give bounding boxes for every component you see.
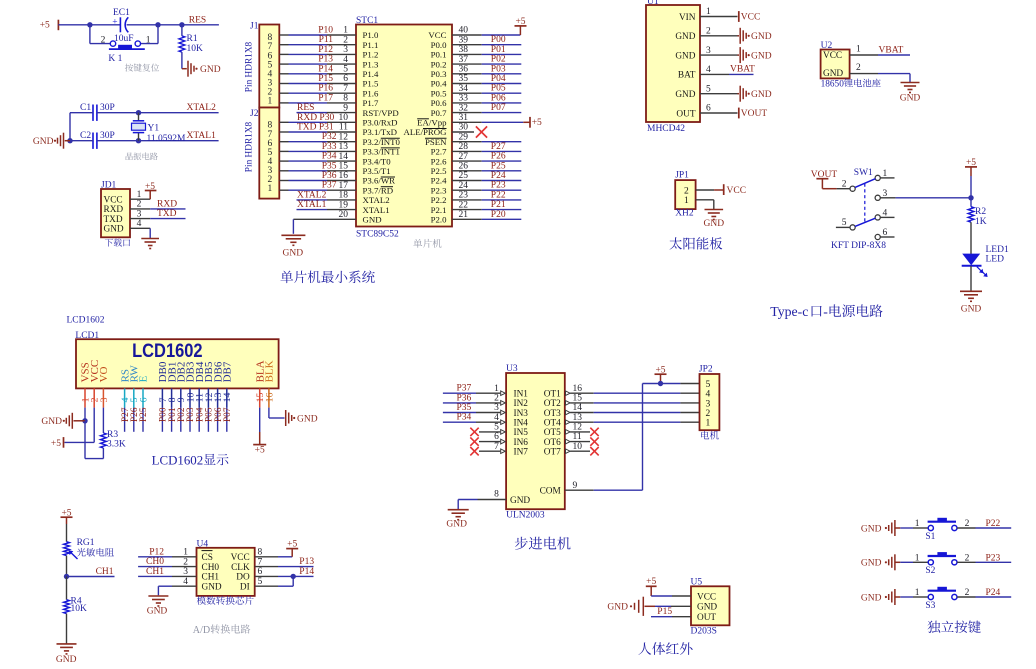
svg-text:E: E — [138, 375, 150, 382]
svg-text:+5: +5 — [515, 17, 525, 27]
svg-text:XTAL1: XTAL1 — [363, 205, 390, 215]
svg-text:13: 13 — [339, 142, 349, 152]
svg-text:9: 9 — [573, 481, 578, 491]
svg-text:3: 3 — [99, 397, 110, 402]
svg-text:40: 40 — [459, 26, 469, 36]
svg-text:4: 4 — [494, 413, 499, 423]
svg-text:P2.7: P2.7 — [431, 147, 447, 157]
svg-text:P14: P14 — [299, 567, 314, 577]
svg-text:XTAL2: XTAL2 — [187, 103, 217, 113]
svg-text:OT6: OT6 — [544, 438, 561, 448]
svg-text:CH1: CH1 — [96, 567, 114, 577]
svg-text:LED: LED — [986, 255, 1005, 265]
svg-text:P14: P14 — [318, 64, 333, 74]
svg-text:RXD: RXD — [157, 199, 177, 209]
svg-text:LCD1602: LCD1602 — [132, 341, 203, 362]
svg-text:IN4: IN4 — [514, 419, 529, 429]
svg-text:RES: RES — [297, 103, 314, 113]
svg-text:RXD P30: RXD P30 — [297, 113, 334, 123]
svg-text:1: 1 — [915, 553, 920, 563]
svg-text:P1.0: P1.0 — [363, 30, 379, 40]
svg-text:P23: P23 — [986, 553, 1001, 563]
svg-text:SW1: SW1 — [854, 168, 873, 178]
svg-text:P0.5: P0.5 — [431, 88, 447, 98]
svg-text:2: 2 — [183, 557, 188, 567]
svg-text:P1.2: P1.2 — [363, 50, 379, 60]
svg-text:P32: P32 — [322, 132, 337, 142]
svg-text:30: 30 — [459, 123, 469, 133]
svg-text:P17: P17 — [318, 93, 333, 103]
svg-text:Type-c: Type-c — [770, 304, 808, 319]
svg-text:CH0: CH0 — [146, 557, 164, 567]
svg-text:5: 5 — [343, 65, 348, 75]
svg-text:GND: GND — [363, 215, 382, 225]
svg-text:P0.0: P0.0 — [431, 40, 447, 50]
svg-text:18: 18 — [339, 191, 349, 201]
svg-text:2: 2 — [706, 27, 711, 37]
svg-text:P24: P24 — [491, 171, 506, 181]
svg-text:VCC: VCC — [104, 196, 123, 206]
svg-text:GND: GND — [675, 90, 695, 100]
svg-text:P04: P04 — [491, 74, 506, 84]
svg-text:GND: GND — [861, 524, 882, 534]
svg-text:BLK: BLK — [264, 360, 276, 382]
svg-text:CH1: CH1 — [146, 567, 164, 577]
svg-text:31: 31 — [459, 113, 469, 123]
svg-text:17: 17 — [339, 181, 349, 191]
svg-text:VCC: VCC — [428, 30, 446, 40]
svg-text:27: 27 — [459, 152, 469, 162]
svg-text:OUT: OUT — [697, 613, 716, 623]
svg-text:GND: GND — [751, 90, 772, 100]
svg-text:1: 1 — [915, 588, 920, 598]
svg-text:19: 19 — [339, 200, 349, 210]
svg-text:-: - — [823, 304, 828, 319]
svg-text:IN6: IN6 — [514, 438, 529, 448]
svg-text:3.3K: 3.3K — [107, 439, 126, 449]
svg-text:P02: P02 — [491, 55, 506, 65]
svg-text:3: 3 — [706, 399, 711, 409]
svg-text:P12: P12 — [318, 45, 333, 55]
svg-text:7: 7 — [494, 442, 499, 452]
svg-text:P27: P27 — [491, 142, 506, 152]
svg-text:14: 14 — [573, 403, 583, 413]
svg-text:P1.4: P1.4 — [363, 69, 379, 79]
svg-text:1: 1 — [856, 45, 861, 55]
svg-text:12: 12 — [573, 423, 583, 433]
svg-text:30P: 30P — [100, 103, 115, 113]
svg-text:8: 8 — [258, 548, 263, 558]
svg-text:15: 15 — [339, 162, 349, 172]
svg-text:S1: S1 — [925, 532, 935, 542]
svg-text:10: 10 — [573, 442, 583, 452]
svg-text:16: 16 — [573, 384, 583, 394]
svg-text:RXD: RXD — [104, 205, 124, 215]
svg-text:P15: P15 — [657, 607, 672, 617]
svg-text:+5: +5 — [966, 158, 976, 168]
svg-text:25: 25 — [459, 171, 469, 181]
svg-text:6: 6 — [258, 567, 263, 577]
svg-text:P1.1: P1.1 — [363, 40, 379, 50]
svg-text:1: 1 — [343, 26, 348, 36]
svg-text:3: 3 — [343, 45, 348, 55]
svg-text:OT5: OT5 — [544, 428, 561, 438]
svg-text:TXD: TXD — [104, 215, 123, 225]
svg-text:DI: DI — [240, 583, 250, 593]
svg-text:IN3: IN3 — [514, 409, 529, 419]
svg-text:P21: P21 — [491, 200, 506, 210]
svg-text:P2.3: P2.3 — [431, 185, 447, 195]
svg-text:28: 28 — [459, 142, 469, 152]
svg-text:RES: RES — [189, 15, 206, 25]
svg-text:P15: P15 — [318, 74, 333, 84]
svg-text:P1.3: P1.3 — [363, 59, 379, 69]
svg-text:29: 29 — [459, 132, 469, 142]
svg-text:K 1: K 1 — [108, 54, 122, 64]
svg-text:CS: CS — [202, 553, 213, 563]
svg-text:2: 2 — [494, 394, 499, 404]
svg-text:16: 16 — [339, 171, 349, 181]
svg-text:VCC: VCC — [231, 553, 250, 563]
svg-text:C1: C1 — [80, 103, 91, 113]
svg-text:+5: +5 — [532, 118, 542, 128]
svg-text:+5: +5 — [40, 21, 50, 31]
svg-text:11: 11 — [573, 432, 582, 442]
svg-text:P3.0/RxD: P3.0/RxD — [363, 118, 398, 128]
svg-text:C2: C2 — [80, 131, 91, 141]
svg-text:P13: P13 — [299, 557, 314, 567]
svg-text:14: 14 — [222, 393, 233, 403]
svg-text:7: 7 — [343, 84, 348, 94]
svg-text:CH0: CH0 — [202, 563, 220, 573]
svg-text:P2.0: P2.0 — [431, 215, 447, 225]
svg-text:GND: GND — [202, 583, 222, 593]
svg-text:P37: P37 — [322, 181, 337, 191]
svg-text:GND: GND — [297, 414, 318, 424]
svg-text:GND: GND — [33, 137, 54, 147]
svg-text:GND: GND — [200, 65, 221, 75]
svg-text:1: 1 — [137, 190, 142, 200]
svg-text:P12: P12 — [149, 547, 164, 557]
svg-text:1: 1 — [494, 384, 499, 394]
svg-text:34: 34 — [459, 84, 469, 94]
svg-text:XTAL1: XTAL1 — [297, 200, 327, 210]
svg-text:TXD: TXD — [157, 209, 177, 219]
svg-text:GND: GND — [675, 32, 695, 42]
svg-text:Y1: Y1 — [148, 123, 160, 133]
svg-text:D203S: D203S — [691, 627, 717, 637]
svg-text:5: 5 — [706, 84, 711, 94]
svg-text:P0.3: P0.3 — [431, 69, 447, 79]
svg-text:OT1: OT1 — [544, 390, 561, 400]
svg-text:GND: GND — [861, 593, 882, 603]
svg-text:4: 4 — [137, 219, 142, 229]
svg-text:IN5: IN5 — [514, 428, 529, 438]
svg-text:P1.5: P1.5 — [363, 79, 379, 89]
svg-text:XTAL2: XTAL2 — [297, 190, 327, 200]
svg-text:EC1: EC1 — [113, 8, 130, 18]
svg-text:2: 2 — [343, 35, 348, 45]
svg-text:TXD P31: TXD P31 — [297, 123, 334, 133]
svg-text:1K: 1K — [975, 217, 987, 227]
svg-text:STC1: STC1 — [356, 16, 378, 26]
svg-text:P2.4: P2.4 — [431, 176, 447, 186]
svg-text:10K: 10K — [187, 44, 204, 54]
svg-text:P25: P25 — [491, 161, 506, 171]
svg-text:P0.4: P0.4 — [431, 79, 447, 89]
svg-text:2: 2 — [856, 63, 861, 73]
svg-text:9: 9 — [343, 103, 348, 113]
svg-text:P05: P05 — [491, 84, 506, 94]
svg-text:GND: GND — [704, 219, 725, 229]
svg-text:5: 5 — [706, 380, 711, 390]
svg-text:P2.2: P2.2 — [431, 195, 447, 205]
svg-text:2: 2 — [706, 409, 711, 419]
svg-text:BAT: BAT — [678, 71, 696, 81]
svg-text:R2: R2 — [975, 207, 986, 217]
svg-text:3: 3 — [706, 46, 711, 56]
svg-text:P34: P34 — [457, 413, 472, 423]
svg-text:13: 13 — [573, 413, 583, 423]
svg-text:STC89C52: STC89C52 — [356, 230, 399, 240]
svg-text:GND: GND — [861, 559, 882, 569]
svg-text:P3.1/TxD: P3.1/TxD — [363, 127, 397, 137]
svg-text:P33: P33 — [322, 142, 337, 152]
svg-text:MHCD42: MHCD42 — [647, 124, 685, 134]
svg-text:11: 11 — [339, 123, 348, 133]
svg-text:P34: P34 — [322, 152, 337, 162]
svg-text:S2: S2 — [925, 566, 935, 576]
svg-text:1: 1 — [915, 519, 920, 529]
svg-text:IN7: IN7 — [514, 448, 529, 458]
svg-text:12: 12 — [339, 132, 349, 142]
svg-text:+5: +5 — [255, 446, 265, 456]
svg-text:S3: S3 — [925, 601, 935, 611]
svg-text:38: 38 — [459, 45, 469, 55]
svg-text:GND: GND — [41, 417, 62, 427]
svg-text:P10: P10 — [318, 26, 333, 36]
svg-text:VCC: VCC — [697, 592, 716, 602]
svg-text:1: 1 — [684, 196, 689, 206]
svg-text:4: 4 — [706, 65, 711, 75]
svg-text:GND: GND — [56, 655, 77, 665]
svg-text:3: 3 — [183, 567, 188, 577]
svg-text:2: 2 — [842, 179, 847, 189]
svg-text:32: 32 — [459, 103, 469, 113]
svg-text:GND: GND — [510, 496, 530, 506]
svg-text:VO: VO — [98, 366, 110, 382]
svg-text:21: 21 — [459, 210, 469, 220]
svg-text:P0.7: P0.7 — [431, 108, 447, 118]
svg-text:LCD1602: LCD1602 — [152, 453, 204, 467]
svg-text:6: 6 — [494, 432, 499, 442]
svg-text:37: 37 — [459, 55, 469, 65]
svg-text:P0.1: P0.1 — [431, 50, 447, 60]
svg-text:VCC: VCC — [727, 186, 747, 196]
svg-text:P22: P22 — [986, 519, 1001, 529]
svg-text:5: 5 — [494, 423, 499, 433]
svg-text:P35: P35 — [457, 403, 472, 413]
svg-text:1: 1 — [268, 97, 273, 107]
svg-text:P1.6: P1.6 — [363, 88, 379, 98]
svg-text:GND: GND — [751, 51, 772, 61]
svg-text:LCD1602: LCD1602 — [67, 316, 105, 326]
svg-text:2: 2 — [684, 186, 689, 196]
svg-text:P13: P13 — [318, 55, 333, 65]
svg-text:P2.6: P2.6 — [431, 156, 447, 166]
svg-text:16: 16 — [264, 393, 275, 403]
svg-text:IN2: IN2 — [514, 399, 529, 409]
svg-text:J1: J1 — [250, 21, 259, 31]
svg-text:22: 22 — [459, 200, 469, 210]
svg-text:+5: +5 — [61, 508, 71, 518]
svg-text:P25: P25 — [139, 407, 149, 422]
svg-text:23: 23 — [459, 191, 469, 201]
svg-text:OUT: OUT — [676, 109, 695, 119]
svg-text:8: 8 — [494, 490, 499, 500]
svg-text:1: 1 — [268, 184, 273, 194]
svg-text:1: 1 — [706, 7, 711, 17]
svg-text:+5: +5 — [287, 540, 297, 550]
svg-text:VBAT: VBAT — [879, 46, 904, 56]
svg-text:4: 4 — [343, 55, 348, 65]
svg-text:1: 1 — [706, 419, 711, 429]
svg-text:OT3: OT3 — [544, 409, 561, 419]
svg-text:P0.2: P0.2 — [431, 59, 447, 69]
svg-text:GND: GND — [104, 225, 124, 235]
svg-text:COM: COM — [540, 487, 561, 497]
svg-text:RG1: RG1 — [77, 538, 95, 548]
svg-text:XTAL2: XTAL2 — [363, 195, 390, 205]
svg-text:39: 39 — [459, 35, 469, 45]
svg-text:P3.4/T0: P3.4/T0 — [363, 156, 392, 166]
svg-text:KFT DIP-8X8: KFT DIP-8X8 — [831, 241, 886, 251]
svg-text:+: + — [112, 17, 117, 27]
svg-text:2: 2 — [137, 200, 142, 210]
svg-text:GND: GND — [961, 305, 982, 315]
svg-text:VBAT: VBAT — [730, 65, 755, 75]
svg-text:VCC: VCC — [741, 13, 761, 23]
svg-text:OT4: OT4 — [544, 419, 561, 429]
svg-text:P01: P01 — [491, 45, 506, 55]
svg-text:10uF: 10uF — [114, 34, 134, 44]
svg-text:A/D: A/D — [193, 625, 210, 636]
svg-text:R1: R1 — [187, 34, 198, 44]
svg-text:ULN2003: ULN2003 — [506, 511, 545, 521]
svg-text:P03: P03 — [491, 64, 506, 74]
svg-text:XH2: XH2 — [675, 209, 694, 219]
svg-text:Pin HDR1X8: Pin HDR1X8 — [244, 41, 254, 92]
svg-text:35: 35 — [459, 74, 469, 84]
svg-text:LED1: LED1 — [986, 245, 1009, 255]
svg-text:P11: P11 — [319, 35, 334, 45]
svg-text:8: 8 — [343, 94, 348, 104]
svg-text:GND: GND — [697, 603, 717, 613]
svg-text:OT7: OT7 — [544, 448, 561, 458]
svg-text:P37: P37 — [457, 384, 472, 394]
svg-text:33: 33 — [459, 94, 469, 104]
svg-text:1: 1 — [183, 548, 188, 558]
svg-text:20: 20 — [339, 210, 349, 220]
svg-text:Pin HDR1X8: Pin HDR1X8 — [244, 121, 254, 172]
svg-text:P36: P36 — [457, 393, 472, 403]
svg-text:P2.5: P2.5 — [431, 166, 447, 176]
svg-text:6: 6 — [706, 104, 711, 114]
svg-text:5: 5 — [258, 577, 263, 587]
svg-text:10K: 10K — [71, 604, 88, 614]
svg-text:26: 26 — [459, 162, 469, 172]
svg-text:P00: P00 — [491, 35, 506, 45]
svg-text:1: 1 — [146, 35, 151, 45]
svg-text:3: 3 — [137, 209, 142, 219]
svg-text:GND: GND — [823, 69, 843, 79]
svg-text:2: 2 — [101, 35, 106, 45]
svg-text:GND: GND — [751, 32, 772, 42]
svg-text:+5: +5 — [655, 365, 665, 375]
svg-text:GND: GND — [147, 607, 168, 617]
svg-text:P07: P07 — [491, 103, 506, 113]
svg-text:18650: 18650 — [821, 79, 845, 89]
svg-text:+5: +5 — [51, 439, 61, 449]
svg-text:GND: GND — [607, 603, 628, 613]
svg-text:VCC: VCC — [823, 51, 842, 61]
svg-text:3: 3 — [494, 403, 499, 413]
svg-text:11.0592M: 11.0592M — [147, 134, 187, 144]
svg-text:P0.6: P0.6 — [431, 98, 447, 108]
svg-text:6: 6 — [138, 397, 149, 402]
svg-text:24: 24 — [459, 181, 469, 191]
svg-text:XTAL1: XTAL1 — [187, 131, 217, 141]
svg-text:P35: P35 — [322, 161, 337, 171]
svg-text:GND: GND — [675, 51, 695, 61]
svg-text:CH1: CH1 — [202, 573, 220, 583]
svg-text:P16: P16 — [318, 84, 333, 94]
svg-text:15: 15 — [573, 394, 583, 404]
svg-text:J2: J2 — [250, 109, 259, 119]
svg-text:4: 4 — [706, 390, 711, 400]
svg-text:GND: GND — [900, 93, 921, 103]
svg-text:P1.7: P1.7 — [363, 98, 379, 108]
svg-text:14: 14 — [339, 152, 349, 162]
svg-text:4: 4 — [183, 577, 188, 587]
svg-text:P23: P23 — [491, 181, 506, 191]
svg-text:DO: DO — [236, 573, 250, 583]
svg-text:7: 7 — [258, 557, 263, 567]
svg-text:P36: P36 — [322, 171, 337, 181]
svg-text:P22: P22 — [491, 190, 506, 200]
svg-text:CLK: CLK — [231, 563, 250, 573]
svg-text:10: 10 — [339, 113, 349, 123]
svg-text:P26: P26 — [491, 152, 506, 162]
svg-text:6: 6 — [343, 74, 348, 84]
svg-text:P07: P07 — [223, 407, 233, 422]
svg-text:P3.5/T1: P3.5/T1 — [363, 166, 391, 176]
svg-text:P24: P24 — [986, 588, 1001, 598]
svg-text:DB7: DB7 — [222, 361, 234, 382]
svg-text:GND: GND — [446, 519, 467, 529]
svg-text:P2.1: P2.1 — [431, 205, 447, 215]
svg-text:JP1: JP1 — [675, 171, 689, 181]
svg-text:P20: P20 — [491, 210, 506, 220]
svg-text:P06: P06 — [491, 93, 506, 103]
svg-text:GND: GND — [283, 249, 304, 259]
svg-text:JP2: JP2 — [699, 365, 713, 375]
svg-text:30P: 30P — [100, 131, 115, 141]
svg-text:VOUT: VOUT — [741, 109, 768, 119]
svg-text:VIN: VIN — [679, 13, 696, 23]
svg-text:IN1: IN1 — [514, 390, 529, 400]
svg-text:36: 36 — [459, 65, 469, 75]
